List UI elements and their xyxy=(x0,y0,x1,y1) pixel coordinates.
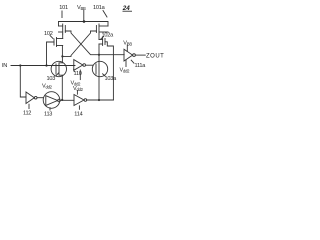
svg-text:ZOUT: ZOUT xyxy=(146,54,164,60)
svg-text:113: 113 xyxy=(44,112,52,118)
svg-text:103: 103 xyxy=(47,76,56,82)
svg-text:Vdd2: Vdd2 xyxy=(120,68,131,74)
svg-text:102a: 102a xyxy=(102,33,115,39)
svg-text:IN: IN xyxy=(2,63,7,69)
svg-text:110: 110 xyxy=(74,71,82,77)
svg-text:VBB: VBB xyxy=(123,40,132,46)
svg-text:Vdd2: Vdd2 xyxy=(42,84,53,90)
svg-text:Vdd2: Vdd2 xyxy=(73,86,84,92)
svg-text:103a: 103a xyxy=(105,76,118,82)
svg-text:101a: 101a xyxy=(93,5,106,11)
svg-text:112: 112 xyxy=(23,111,31,117)
svg-text:111a: 111a xyxy=(135,63,147,69)
svg-text:102: 102 xyxy=(44,31,53,37)
svg-text:VBB: VBB xyxy=(77,5,86,11)
svg-text:114: 114 xyxy=(74,111,82,117)
svg-text:101: 101 xyxy=(59,5,68,11)
